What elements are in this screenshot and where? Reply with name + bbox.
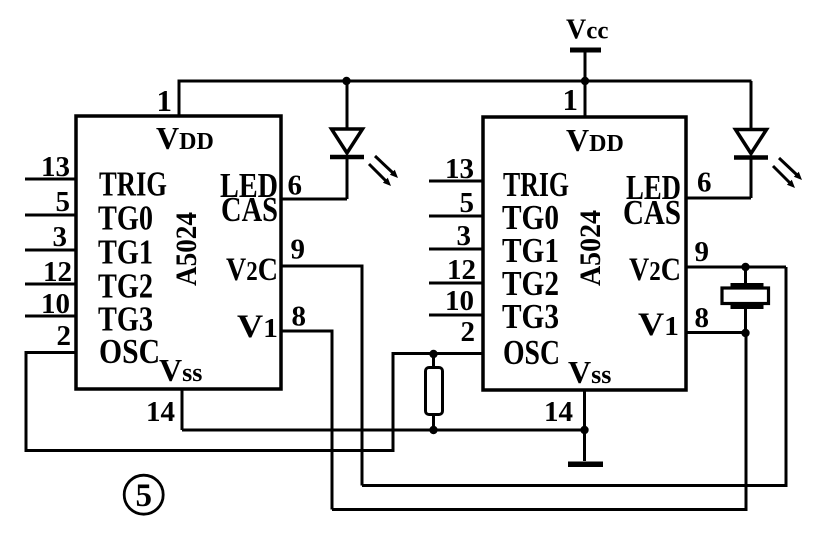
- wire: V2C bus bottom and right riser: [362, 267, 786, 486]
- U1 pin 3 (TG1): [25, 221, 76, 253]
- U2 pin 12 (TG2): [429, 254, 483, 286]
- svg-text:10: 10: [445, 285, 474, 317]
- U2 pin 3 (TG1): [429, 220, 483, 252]
- U1 pin 12 (TG2): [25, 256, 76, 288]
- U2 pin 5 (TG0): [429, 187, 483, 219]
- U2 pin 14 (Vss): [544, 390, 585, 461]
- U2 pin 6 (LED CAS) wire: [686, 167, 751, 199]
- svg-text:CAS: CAS: [221, 190, 278, 229]
- svg-text:12: 12: [447, 254, 476, 286]
- svg-text:V1: V1: [638, 307, 679, 343]
- svg-text:3: 3: [457, 220, 472, 252]
- svg-text:A5024: A5024: [574, 210, 607, 286]
- figure number 5 (circled): [124, 475, 163, 514]
- U1 pin 8 (V1) wire: [281, 301, 332, 510]
- U2 pin 10 (TG3): [429, 285, 483, 317]
- node: junction V1 / crystal bottom: [741, 329, 749, 337]
- svg-text:Vss: Vss: [568, 354, 611, 390]
- wire: Vss line: [182, 429, 585, 432]
- svg-text:3: 3: [53, 221, 68, 253]
- U1 pin 13 (TRIG): [25, 151, 76, 183]
- svg-text:5: 5: [135, 478, 152, 514]
- svg-text:9: 9: [695, 236, 710, 268]
- U2 pin 13 (TRIG): [429, 153, 483, 185]
- U2 pin 9 (V2C) wire: [686, 236, 786, 268]
- svg-text:TG3: TG3: [502, 297, 559, 336]
- svg-text:Vcc: Vcc: [566, 15, 608, 46]
- svg-text:14: 14: [544, 396, 573, 428]
- svg-text:6: 6: [697, 167, 712, 199]
- U1 pin 6 (LED CAS) wire: [281, 170, 347, 202]
- U1 pin 2 (OSC) wire to U2 pin 2: [26, 320, 483, 451]
- svg-text:OSC: OSC: [503, 333, 560, 372]
- IC U1 A5024 box: [76, 116, 281, 389]
- svg-text:2: 2: [461, 316, 476, 348]
- LED D2 emission arrows: [773, 158, 802, 188]
- svg-text:12: 12: [43, 256, 72, 288]
- svg-text:5: 5: [460, 187, 475, 219]
- svg-text:1: 1: [157, 83, 173, 118]
- svg-text:V2C: V2C: [226, 252, 278, 288]
- U1 pin 14 (Vss): [146, 389, 182, 430]
- svg-text:13: 13: [41, 151, 70, 183]
- svg-text:2: 2: [57, 320, 72, 352]
- svg-text:V2C: V2C: [629, 252, 681, 288]
- svg-text:CAS: CAS: [623, 193, 681, 232]
- crystal X1: [722, 267, 769, 333]
- svg-text:8: 8: [695, 302, 710, 334]
- node: junction top rail / Vcc: [581, 77, 589, 85]
- node: junction V2C / crystal top: [741, 263, 749, 271]
- node: junction top rail / LED D1: [342, 77, 350, 85]
- U2 pin 1 (VDD): [563, 81, 586, 118]
- power: Vcc symbol: [570, 48, 601, 82]
- node: junction OSC wire / R1 top: [429, 350, 437, 358]
- svg-text:Vss: Vss: [159, 352, 202, 388]
- ground: [568, 462, 603, 468]
- svg-text:8: 8: [292, 301, 307, 333]
- U1 pin 9 (V2C) wire: [281, 234, 362, 486]
- svg-text:9: 9: [291, 234, 306, 266]
- svg-text:5: 5: [56, 186, 71, 218]
- resistor R1: [426, 354, 443, 430]
- svg-text:6: 6: [288, 170, 303, 202]
- svg-text:14: 14: [146, 396, 175, 428]
- svg-text:10: 10: [41, 288, 70, 320]
- LED D1: [330, 81, 364, 199]
- svg-text:1: 1: [563, 82, 579, 117]
- U1 pin 10 (TG3): [25, 288, 76, 320]
- LED D2: [734, 81, 768, 198]
- U1 pin 5 (TG0): [25, 186, 76, 218]
- node: junction R1 bottom / Vss line: [429, 426, 437, 434]
- svg-text:OSC: OSC: [99, 332, 160, 371]
- svg-text:V1: V1: [237, 309, 278, 345]
- svg-text:A5024: A5024: [170, 212, 203, 286]
- node: junction Vss line / U2 pin 14: [580, 426, 588, 434]
- svg-text:13: 13: [445, 153, 474, 185]
- wire: V1 bus bottom and right riser: [332, 333, 746, 510]
- wire: Vcc top rail: [178, 80, 752, 83]
- U2 pin 8 (V1) wire: [686, 302, 746, 334]
- U1 pin 1 (VDD): [157, 81, 180, 118]
- IC U2 A5024 box: [483, 117, 686, 390]
- LED D1 emission arrows: [369, 156, 398, 186]
